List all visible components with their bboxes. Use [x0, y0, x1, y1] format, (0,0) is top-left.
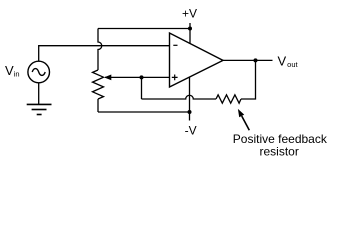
- svg-text:+V: +V: [182, 7, 197, 21]
- junction output dot: [254, 58, 258, 62]
- wire output: [223, 59, 273, 61]
- wire junction down from non-inverting node: [141, 77, 143, 99]
- resistor positive feedback: [216, 95, 241, 103]
- wire +V stub and op-amp V+ pin: [189, 23, 191, 44]
- wire feedback left segment with hop over V- stub: [142, 95, 217, 99]
- svg-text:resistor: resistor: [260, 145, 299, 159]
- source V_in AC symbol: [28, 61, 50, 83]
- wire left vertical from +V rail to potentiometer with hop over Vin wire: [98, 29, 102, 71]
- junction non-inverting node dot: [140, 75, 144, 79]
- wire Vin source to ground: [38, 83, 40, 104]
- annotation arrow to feedback resistor: [238, 109, 249, 130]
- wire -V rail bottom: [98, 111, 190, 113]
- op-amp U1: [170, 33, 224, 87]
- svg-text:Vout: Vout: [278, 53, 299, 69]
- wire op-amp V- pin to -V stub: [189, 77, 191, 121]
- svg-text:Vin: Vin: [5, 63, 20, 79]
- svg-text:-V: -V: [185, 124, 197, 138]
- potentiometer wiper arrow: [104, 75, 111, 81]
- wire Vin source to inverting input: [39, 46, 170, 62]
- wire wiper to non-inverting input: [105, 76, 170, 78]
- potentiometer R: [93, 70, 104, 99]
- junction -V dot: [188, 110, 192, 114]
- wire +V rail top: [98, 28, 190, 30]
- ground: [27, 104, 52, 114]
- wire feedback resistor to output node: [241, 60, 256, 99]
- wire potentiometer bottom lead: [97, 99, 99, 112]
- junction +V dot: [188, 27, 192, 31]
